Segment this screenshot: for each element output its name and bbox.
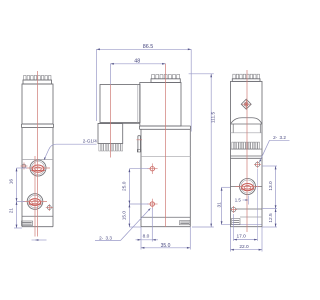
svg-text:31: 31 — [217, 202, 223, 208]
svg-text:12.5: 12.5 — [268, 213, 274, 223]
svg-text:13.0: 13.0 — [268, 181, 274, 191]
svg-text:1.5: 1.5 — [235, 198, 242, 203]
svg-text:25.0: 25.0 — [122, 181, 128, 191]
svg-text:2- 3.3: 2- 3.3 — [99, 235, 112, 240]
svg-text:22.0: 22.0 — [239, 244, 249, 250]
svg-text:48: 48 — [134, 59, 140, 65]
svg-text:2-G1/4: 2-G1/4 — [83, 138, 97, 143]
svg-text:8.0: 8.0 — [143, 234, 150, 240]
svg-text:17.0: 17.0 — [237, 233, 247, 239]
svg-text:35.0: 35.0 — [161, 243, 171, 249]
svg-text:21: 21 — [8, 208, 14, 214]
svg-text:15.0: 15.0 — [122, 211, 128, 221]
svg-text:16: 16 — [8, 179, 14, 185]
svg-text:111.5: 111.5 — [210, 112, 216, 124]
svg-text:86.5: 86.5 — [143, 44, 154, 50]
svg-text:2- 3.2: 2- 3.2 — [273, 135, 286, 140]
